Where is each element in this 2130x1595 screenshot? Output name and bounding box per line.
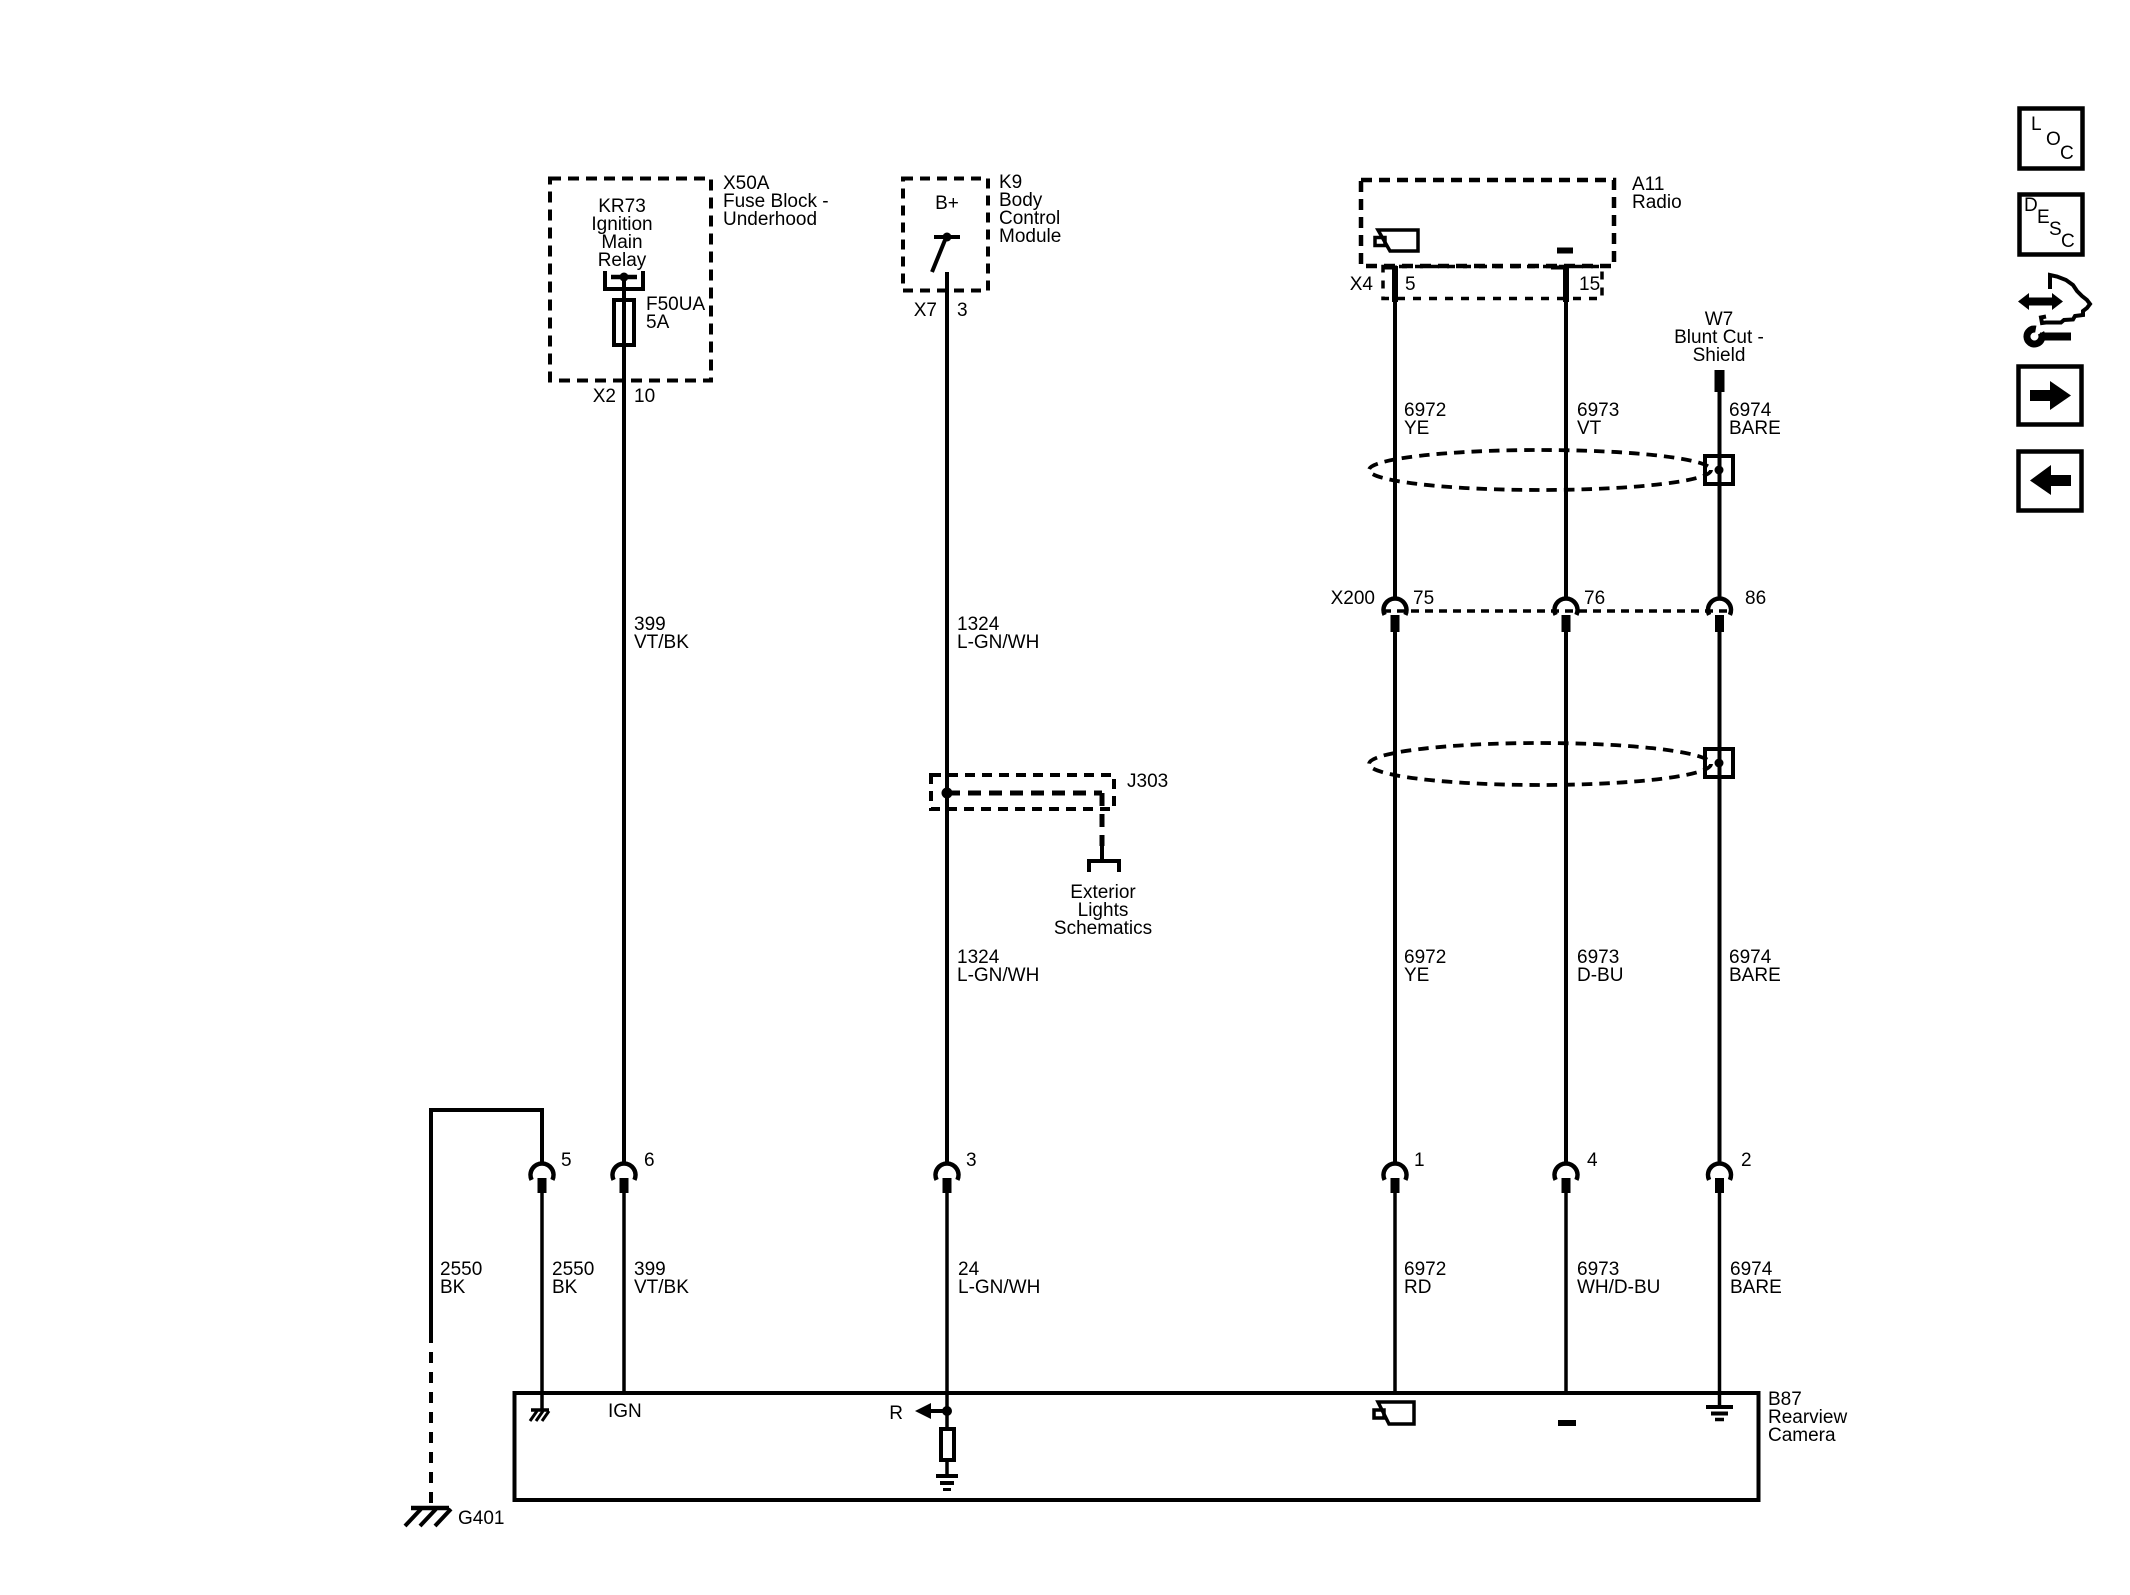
svg-text:10: 10 bbox=[634, 386, 655, 407]
splice J303 dashed box bbox=[931, 775, 1114, 809]
svg-text:RD: RD bbox=[1404, 1277, 1431, 1298]
X200 socket pin 75 bbox=[1384, 598, 1407, 632]
minus terminal in radio bbox=[1557, 248, 1573, 254]
svg-text:L-GN/WH: L-GN/WH bbox=[957, 965, 1039, 986]
wire label 6973 WH/D-BU lower bbox=[1577, 1259, 1660, 1298]
svg-text:6: 6 bbox=[644, 1150, 655, 1171]
camera icon in B87 bbox=[1374, 1402, 1414, 1424]
shield terminal box 2 bbox=[1705, 749, 1733, 777]
fuse value label F50UA 5A bbox=[646, 294, 705, 333]
BCM K9 label bbox=[999, 172, 1061, 247]
car diagnostics icon bbox=[2018, 275, 2090, 344]
svg-text:Radio: Radio bbox=[1632, 192, 1682, 213]
rearview camera B87 label bbox=[1768, 1389, 1847, 1446]
X200 socket pin 86 bbox=[1708, 598, 1731, 632]
IGN pin label bbox=[608, 1401, 642, 1422]
camera icon in radio bbox=[1375, 230, 1418, 251]
shield ellipse 1 bbox=[1369, 450, 1711, 490]
svg-text:B+: B+ bbox=[935, 193, 959, 214]
dashed wire to G401 bbox=[429, 1332, 433, 1504]
svg-text:3: 3 bbox=[957, 300, 968, 321]
svg-text:Relay: Relay bbox=[598, 250, 647, 271]
minus terminal in B87 bbox=[1558, 1420, 1576, 1426]
rearview camera B87 box bbox=[515, 1393, 1759, 1500]
R pin label and arrow bbox=[889, 1403, 952, 1424]
wire label 6974 BARE lower bbox=[1730, 1259, 1782, 1298]
svg-text:C: C bbox=[2060, 143, 2074, 164]
wire label 6973 D-BU mid bbox=[1577, 947, 1623, 986]
svg-text:1: 1 bbox=[1414, 1150, 1425, 1171]
wire label 2550 BK left bbox=[440, 1259, 482, 1298]
svg-text:BARE: BARE bbox=[1730, 1277, 1782, 1298]
svg-text:YE: YE bbox=[1404, 965, 1429, 986]
connector X4 dotted box bbox=[1383, 267, 1602, 299]
node B+ label bbox=[935, 193, 959, 214]
junction dot J303 bbox=[942, 788, 953, 799]
connector X7 pin 3 labels bbox=[914, 300, 968, 321]
wire label 1324 L-GN/WH upper bbox=[957, 614, 1039, 653]
connector X200 labels bbox=[1331, 588, 1767, 609]
ground G401 label bbox=[458, 1508, 504, 1529]
signal ground in camera bbox=[936, 1476, 958, 1490]
svg-text:X4: X4 bbox=[1350, 274, 1374, 295]
svg-text:X7: X7 bbox=[914, 300, 937, 321]
svg-text:86: 86 bbox=[1745, 588, 1766, 609]
svg-text:Underhood: Underhood bbox=[723, 209, 817, 230]
wire label 6972 RD lower bbox=[1404, 1259, 1446, 1298]
wire label 1324 L-GN/WH lower bbox=[957, 947, 1039, 986]
svg-text:Module: Module bbox=[999, 226, 1061, 247]
wire label 399 VT/BK upper bbox=[634, 614, 689, 653]
wire label 399 VT/BK lower bbox=[634, 1259, 689, 1298]
blunt cut W7 stub bbox=[1715, 370, 1725, 392]
camera connector pin 4 bbox=[1555, 1150, 1599, 1393]
splice J303 label bbox=[1127, 771, 1168, 792]
svg-text:15: 15 bbox=[1579, 274, 1600, 295]
svg-text:Schematics: Schematics bbox=[1054, 918, 1152, 939]
wire label 6973 VT upper bbox=[1577, 400, 1619, 439]
shield ellipse 2 bbox=[1369, 743, 1711, 785]
svg-text:BK: BK bbox=[552, 1277, 578, 1298]
svg-text:BK: BK bbox=[440, 1277, 466, 1298]
radio pin 5 tick bbox=[1384, 266, 1397, 270]
svg-text:G401: G401 bbox=[458, 1508, 504, 1529]
svg-text:BARE: BARE bbox=[1729, 418, 1781, 439]
previous page nav button bbox=[2019, 452, 2082, 511]
svg-text:4: 4 bbox=[1587, 1150, 1598, 1171]
radio A11 dashed box bbox=[1361, 180, 1614, 266]
svg-text:YE: YE bbox=[1404, 418, 1429, 439]
DESC nav button bbox=[2020, 195, 2083, 255]
wire label 2550 BK right bbox=[552, 1259, 594, 1298]
wire R to resistor bbox=[945, 1393, 949, 1429]
next page nav button bbox=[2019, 367, 2082, 425]
svg-text:O: O bbox=[2046, 129, 2061, 150]
svg-text:WH/D-BU: WH/D-BU bbox=[1577, 1277, 1660, 1298]
wire 6974 BARE X200 to camera connector bbox=[1718, 632, 1722, 1165]
svg-text:3: 3 bbox=[966, 1150, 977, 1171]
wire 6972 YE X200 to camera connector bbox=[1393, 632, 1397, 1165]
svg-text:5A: 5A bbox=[646, 312, 670, 333]
blunt cut W7 label bbox=[1674, 309, 1764, 366]
svg-text:L: L bbox=[2031, 114, 2042, 135]
camera connector pin 3 bbox=[935, 1150, 976, 1393]
wire label 6974 BARE mid bbox=[1729, 947, 1781, 986]
wire 6973 VT radio to X200 bbox=[1564, 266, 1568, 600]
connector X200 dashed row bbox=[1383, 609, 1731, 613]
wire 6972 YE radio to X200 bbox=[1393, 266, 1397, 600]
off-page connector to exterior lights bbox=[1089, 846, 1119, 872]
wire 6974 BARE blunt cut to X200 bbox=[1718, 392, 1722, 600]
radio A11 label bbox=[1632, 174, 1682, 213]
svg-text:VT: VT bbox=[1577, 418, 1602, 439]
svg-text:IGN: IGN bbox=[608, 1401, 642, 1422]
termination resistor bbox=[941, 1429, 954, 1460]
exterior lights schematics label bbox=[1054, 882, 1152, 939]
svg-text:76: 76 bbox=[1584, 588, 1605, 609]
wire 6973 D-BU X200 to camera connector bbox=[1564, 632, 1568, 1165]
relay KR73 label bbox=[591, 196, 652, 271]
svg-text:L-GN/WH: L-GN/WH bbox=[957, 632, 1039, 653]
camera connector pin 2 bbox=[1708, 1150, 1752, 1393]
wire 1324 L-GN/WH BCM to camera connector bbox=[945, 272, 949, 1165]
wire 399 VT/BK relay to camera connector bbox=[622, 277, 626, 1165]
LOC nav button bbox=[2020, 109, 2083, 169]
wire label 6972 YE upper bbox=[1404, 400, 1446, 439]
fuse block X50A dashed box bbox=[550, 179, 711, 381]
ground branch wire 2550 BK bbox=[431, 1110, 542, 1332]
svg-text:Camera: Camera bbox=[1768, 1425, 1836, 1446]
connector X4 labels bbox=[1350, 274, 1600, 295]
chassis ground in camera bbox=[530, 1393, 549, 1421]
svg-text:S: S bbox=[2049, 219, 2062, 240]
connector X2 pin 10 labels bbox=[593, 386, 655, 407]
radio pin 15 tick bbox=[1551, 266, 1568, 270]
svg-text:C: C bbox=[2061, 231, 2075, 252]
svg-text:5: 5 bbox=[561, 1150, 572, 1171]
svg-text:X200: X200 bbox=[1331, 588, 1375, 609]
wire label 6974 BARE upper bbox=[1729, 400, 1781, 439]
svg-text:J303: J303 bbox=[1127, 771, 1168, 792]
camera connector pin 5 bbox=[531, 1150, 572, 1393]
fuse F50UA bbox=[614, 300, 634, 345]
svg-text:X2: X2 bbox=[593, 386, 616, 407]
svg-text:VT/BK: VT/BK bbox=[634, 632, 689, 653]
camera connector pin 1 bbox=[1384, 1150, 1425, 1393]
wire resistor to signal ground bbox=[945, 1460, 949, 1476]
BCM internal switch bbox=[932, 233, 960, 273]
svg-text:VT/BK: VT/BK bbox=[634, 1277, 689, 1298]
ground G401 bbox=[405, 1508, 451, 1526]
wire label 6972 YE mid bbox=[1404, 947, 1446, 986]
BCM K9 dashed box bbox=[903, 179, 988, 291]
splice J303 bus bbox=[947, 793, 1102, 846]
svg-text:L-GN/WH: L-GN/WH bbox=[958, 1277, 1040, 1298]
svg-text:2: 2 bbox=[1741, 1150, 1752, 1171]
wire label 24 L-GN/WH lower bbox=[958, 1259, 1040, 1298]
shield terminal box 1 bbox=[1705, 456, 1733, 484]
svg-text:75: 75 bbox=[1413, 588, 1434, 609]
fuse block X50A label bbox=[723, 173, 829, 230]
svg-text:Shield: Shield bbox=[1693, 345, 1746, 366]
svg-text:BARE: BARE bbox=[1729, 965, 1781, 986]
X200 socket pin 76 bbox=[1555, 598, 1578, 632]
svg-text:D: D bbox=[2024, 195, 2038, 216]
earth ground in B87 bbox=[1706, 1393, 1733, 1420]
relay KR73 contact symbol bbox=[605, 271, 643, 289]
svg-text:D-BU: D-BU bbox=[1577, 965, 1623, 986]
svg-text:E: E bbox=[2037, 207, 2050, 228]
svg-text:5: 5 bbox=[1405, 274, 1416, 295]
camera connector pin 6 bbox=[613, 1150, 655, 1393]
svg-text:R: R bbox=[889, 1403, 903, 1424]
